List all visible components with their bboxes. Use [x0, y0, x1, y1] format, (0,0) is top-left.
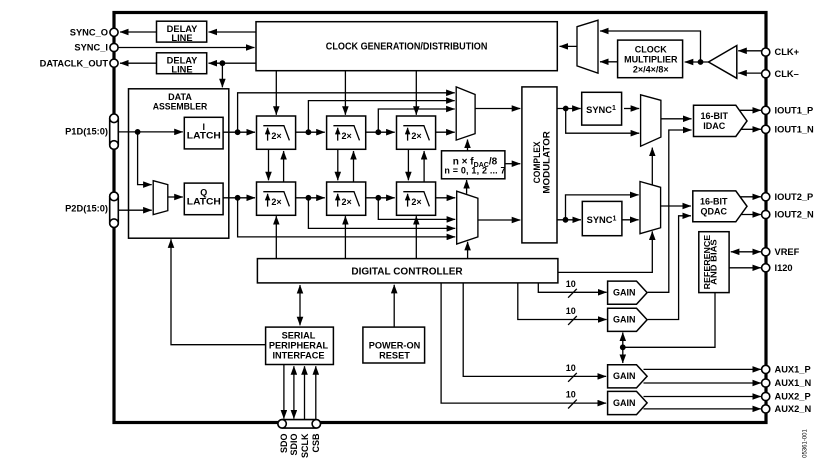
wire: I filter3 to I mux input 4 [436, 131, 455, 133]
block: SYNC1 (I path) [582, 92, 622, 125]
block: I interpolation filter 1 (2x) [257, 116, 296, 149]
mux: IDAC input select [641, 95, 661, 146]
block: SERIAL PERIPHERAL INTERFACE [266, 327, 334, 364]
wire: controller to SPI (bidirectional) [299, 285, 301, 325]
svg-text:I120: I120 [775, 263, 793, 273]
junction dot at Q LATCH output [235, 195, 241, 201]
bus slash gain 2 [568, 316, 577, 325]
pin SYNC_O [110, 28, 118, 36]
svg-text:CLK+: CLK+ [775, 47, 800, 57]
svg-text:10: 10 [566, 363, 576, 373]
svg-text:16-BIT: 16-BIT [701, 111, 729, 121]
svg-text:05361-001: 05361-001 [802, 428, 808, 457]
wire: reference to I120 [729, 267, 761, 269]
junction dot on bias link [620, 344, 626, 350]
wire: P1D input to I LATCH [118, 131, 183, 133]
pin IOUT1_P [762, 106, 770, 114]
pin AUX1_N [762, 379, 770, 387]
wire: aux gain1 to AUX1_P [644, 368, 761, 370]
svg-text:QDAC: QDAC [701, 206, 728, 216]
wire: aux gain2 to AUX2_P [644, 396, 761, 398]
svg-text:SDIO: SDIO [289, 434, 299, 456]
svg-text:IOUT2_N: IOUT2_N [775, 210, 815, 220]
svg-text:2×/4×/8×: 2×/4×/8× [633, 64, 669, 74]
wire: controller to gain 1 (10-bit bus) [538, 283, 606, 292]
svg-text:SCLK: SCLK [300, 433, 310, 458]
wire: clk buffer output to clock multiplier [685, 61, 709, 63]
wire: I bypass 3 to I mux input 3 [378, 109, 454, 132]
svg-text:SYNC_I: SYNC_I [74, 43, 108, 53]
wire: SPI to data assembler [171, 239, 266, 344]
wire: clk buffer branch to clock mux [600, 31, 701, 62]
block: AUX GAIN 1 [608, 365, 648, 388]
wire: power-on reset to controller [393, 285, 395, 327]
wire: clock to I-filter 2 [344, 71, 346, 115]
svg-text:VREF: VREF [775, 247, 800, 257]
wire: I bypass 2 to I mux input 2 [308, 101, 454, 133]
svg-text:GAIN: GAIN [613, 288, 636, 298]
pin DATACLK_OUT [110, 59, 118, 67]
mux: Q path select [457, 191, 478, 244]
wire: I/Q exchange up column 2 [353, 151, 355, 182]
chip border [114, 13, 766, 423]
wire: controller to aux gain 1 (10-bit bus) [463, 283, 606, 377]
svg-text:LATCH: LATCH [187, 131, 221, 141]
block: I LATCH [184, 117, 223, 149]
block: Q interpolation filter 3 (2x) [397, 182, 436, 215]
svg-text:POWER-ON: POWER-ON [369, 340, 421, 350]
wire: clock gen to DELAY LINE 2 [209, 62, 257, 64]
wire: modulator Q out to SYNC1 [557, 219, 581, 221]
wire: controller clock to Q filter 1 [275, 216, 277, 259]
junction dot after Q filter2 [375, 195, 381, 201]
wire: SYNC_I to clock gen [118, 47, 254, 49]
svg-text:AUX1_P: AUX1_P [775, 365, 811, 375]
wire: I/Q exchange up column 1 [283, 151, 285, 182]
svg-text:DIGITAL CONTROLLER: DIGITAL CONTROLLER [351, 266, 463, 277]
wire: clock to I-filter 1 [275, 71, 277, 115]
wire: reference to VREF (bidirectional) [731, 251, 761, 253]
pin AUX2_P [762, 392, 770, 400]
svg-text:RESET: RESET [379, 350, 410, 360]
wire: controller to QDAC mux select [558, 231, 652, 272]
wire: Q filter1 to filter2 [296, 197, 325, 199]
wire: Q mux up to NCO box [466, 180, 468, 194]
block: Q interpolation filter 2 (2x) [327, 182, 366, 215]
block: GAIN 2 [608, 308, 648, 331]
svg-text:LINE: LINE [171, 64, 192, 74]
svg-text:10: 10 [566, 306, 576, 316]
wire: clock gen to DELAY LINE 1 [209, 31, 257, 33]
pin SDO/SDIO/SCLK/CSB bus pill [278, 420, 321, 429]
svg-text:GAIN: GAIN [613, 398, 636, 408]
wire: gain1 feed up to IDAC [648, 130, 692, 292]
wire: bias link up to gain2 and down to aux gain1 [622, 333, 624, 364]
wire: IDAC to IOUT1_N [741, 128, 761, 130]
svg-text:GAIN: GAIN [613, 371, 636, 381]
pin P2D(15:0) bus pill [110, 192, 119, 227]
wire: I filter1 to filter2 [296, 131, 325, 133]
wire: gain2 feed up to QDAC [648, 216, 691, 320]
wire: dataclk branch down to data assembler [221, 63, 223, 87]
block: GAIN 1 [608, 281, 648, 304]
svg-text:IOUT1_N: IOUT1_N [775, 124, 815, 134]
block: REFERENCE AND BIAS [699, 232, 729, 293]
block: I interpolation filter 3 (2x) [397, 116, 436, 149]
svg-text:10: 10 [566, 279, 576, 289]
svg-text:16-BIT: 16-BIT [700, 196, 728, 206]
wire: data mux to Q LATCH [168, 196, 183, 198]
pin CLK+ [762, 48, 770, 56]
svg-text:IOUT1_P: IOUT1_P [775, 105, 814, 115]
pin AUX2_N [762, 405, 770, 413]
svg-text:PERIPHERAL: PERIPHERAL [269, 340, 329, 350]
wire: Q filter3 to Q mux input 1 [436, 197, 455, 199]
svg-text:2×: 2× [411, 131, 421, 141]
svg-text:10: 10 [566, 390, 576, 400]
block: AUX GAIN 2 [608, 391, 648, 414]
wire: controller to aux gain 2 (10-bit bus) [441, 283, 606, 403]
wire: Q filter2 to filter3 [366, 197, 395, 199]
block: POWER-ON RESET [363, 327, 425, 363]
pin IOUT2_N [762, 210, 770, 218]
svg-text:CLOCK GENERATION/DISTRIBUTION: CLOCK GENERATION/DISTRIBUTION [326, 42, 488, 53]
svg-text:2×: 2× [271, 131, 281, 141]
bus slash aux gain 2 [568, 400, 577, 409]
svg-text:CLK–: CLK– [775, 69, 799, 79]
wire: SYNC1 Q to QDAC mux [622, 219, 639, 221]
svg-text:CSB: CSB [311, 433, 321, 453]
block: Q interpolation filter 1 (2x) [257, 182, 296, 215]
svg-text:AUX1_N: AUX1_N [775, 378, 812, 388]
svg-text:INTERFACE: INTERFACE [272, 350, 324, 360]
svg-text:IOUT2_P: IOUT2_P [775, 192, 814, 202]
wire: IDAC mux to 16-BIT IDAC [661, 118, 692, 120]
wire: SDIO pin bidirectional [293, 366, 295, 418]
wire: QDAC mux to IDAC mux select link [651, 148, 653, 185]
wire: DELAY LINE 1 to SYNC_O [120, 31, 156, 33]
wire: I/Q exchange down column 3 [407, 149, 409, 180]
junction dot at I LATCH output [235, 129, 241, 135]
junction dot after Q filter1 [306, 195, 312, 201]
bus slash aux gain 1 [568, 373, 577, 382]
wire: I/Q exchange down column 1 [268, 149, 270, 180]
wire: QDAC mux to 16-BIT QDAC [661, 205, 691, 207]
svg-text:ASSEMBLER: ASSEMBLER [153, 102, 208, 112]
wire: Q bypass from latch to Q mux input 4 [238, 198, 456, 237]
svg-text:2×: 2× [342, 197, 352, 207]
wire: CSB pin to SPI [315, 366, 317, 420]
wire: NCO box up to I mux [467, 140, 469, 151]
block: 16-BIT QDAC [693, 191, 747, 222]
svg-text:IDAC: IDAC [703, 121, 725, 131]
pin CLK- [762, 70, 770, 78]
wire: SCLK pin to SPI [304, 366, 306, 420]
wire: Q bypass 3 to Q mux input 2 [378, 198, 455, 220]
wire: aux gain2 to AUX2_N [644, 408, 761, 410]
wire: I/Q exchange up column 3 [423, 151, 425, 182]
wire: CLK- to buffer [738, 72, 761, 74]
block: DELAY LINE 2 [157, 53, 207, 75]
wire: Q bypass 2 to Q mux input 3 [308, 198, 455, 229]
mux: P1D/P2D data select [153, 181, 168, 215]
svg-text:P1D(15:0): P1D(15:0) [65, 127, 108, 137]
wire: QDAC to IOUT2_P [740, 196, 761, 198]
svg-text:SYNC_O: SYNC_O [70, 27, 108, 37]
svg-text:SDO: SDO [279, 434, 289, 454]
wire: controller clock to Q filter 3 [415, 216, 417, 259]
svg-text:GAIN: GAIN [613, 315, 636, 325]
clock input buffer triangle [709, 46, 737, 79]
wire: I bypass to IDAC mux [566, 109, 640, 134]
svg-text:2×: 2× [271, 197, 281, 207]
bus slash gain 1 [568, 289, 577, 298]
wire: reference bias to gain chain [623, 293, 715, 348]
svg-text:DATA: DATA [168, 92, 192, 102]
pin VREF [762, 248, 770, 256]
wire: I/Q exchange down column 2 [337, 149, 339, 180]
svg-text:2×: 2× [411, 197, 421, 207]
svg-text:MULTIPLIER: MULTIPLIER [624, 54, 678, 64]
svg-text:LATCH: LATCH [187, 197, 221, 207]
svg-text:2×: 2× [342, 131, 352, 141]
wire: P2D input to data mux [118, 209, 151, 211]
svg-text:LINE: LINE [171, 33, 192, 43]
junction dot at modulator Q output [563, 217, 569, 223]
mux: QDAC input select [640, 182, 661, 234]
wire: clock mux output to clock gen [560, 45, 578, 47]
junction dot on P1D wire [135, 129, 141, 135]
block: Q LATCH [184, 183, 223, 215]
svg-text:AUX2_N: AUX2_N [775, 404, 812, 414]
wire: modulator I out to SYNC1 [557, 108, 581, 110]
pin AUX1_P [762, 365, 770, 373]
wire: QDAC to IOUT2_N [741, 214, 761, 216]
wire: controller to gain 2 (10-bit bus) [518, 283, 607, 320]
wire: I bypass from latch to I mux input 1 [238, 93, 455, 132]
block: NCO frequency box n x fDAC/8 [442, 151, 506, 179]
svg-text:AND BIAS: AND BIAS [710, 239, 719, 285]
wire: DELAY LINE 2 to DATACLK_OUT [120, 62, 156, 64]
block: DATA ASSEMBLER (container) [129, 89, 229, 238]
block: 16-BIT IDAC [694, 105, 748, 136]
block: SYNC1 (Q path) [582, 201, 622, 235]
svg-text:SYNC1: SYNC1 [587, 215, 617, 225]
wire: controller clock to Q filter 2 [344, 216, 346, 259]
wire: IDAC to IOUT1_P [740, 109, 761, 111]
block: COMPLEX MODULATOR [522, 87, 557, 243]
junction dot at clk buffer output [698, 59, 704, 65]
junction dot on dataclk wire [220, 60, 226, 66]
junction dot at modulator I output [563, 106, 569, 112]
mux: clock source select [577, 20, 598, 73]
wire: aux gain1 to AUX1_N [644, 382, 761, 384]
svg-text:SYNC1: SYNC1 [586, 105, 616, 115]
block: CLOCK MULTIPLIER 2x/4x/8x [618, 40, 683, 78]
svg-text:DATACLK_OUT: DATACLK_OUT [40, 58, 109, 68]
wire: controller to Q mux select [467, 242, 469, 259]
block: CLOCK GENERATION/DISTRIBUTION [256, 22, 557, 71]
wire: I LATCH output to filter 1 [223, 131, 255, 133]
mux: I path select [456, 87, 475, 140]
wire: SPI to SDO pin [283, 365, 285, 419]
wire: Q bypass to QDAC mux [566, 195, 639, 220]
wire: I filter2 to filter3 [366, 131, 395, 133]
svg-text:P2D(15:0): P2D(15:0) [65, 204, 108, 214]
pin IOUT1_N [762, 125, 770, 133]
pin IOUT2_P [762, 193, 770, 201]
wire: P1D branch to data mux [138, 132, 152, 185]
svg-text:CLOCK: CLOCK [635, 44, 667, 54]
pin I120 [762, 264, 770, 272]
junction dot after I filter2 [375, 129, 381, 135]
svg-text:MODULATOR: MODULATOR [541, 131, 551, 194]
pin P1D(15:0) bus pill [110, 114, 119, 149]
wire: Q mux to complex modulator [478, 219, 520, 221]
block: DELAY LINE 1 [157, 21, 207, 43]
svg-text:AUX2_P: AUX2_P [775, 392, 811, 402]
svg-text:n = 0, 1, 2 ... 7: n = 0, 1, 2 ... 7 [444, 166, 505, 176]
block: DIGITAL CONTROLLER [257, 259, 558, 283]
wire: clock to I-filter 3 [415, 71, 417, 115]
wire: NCO box to complex modulator [505, 163, 520, 165]
block: I interpolation filter 2 (2x) [327, 116, 366, 149]
wire: SYNC1 I to IDAC mux [624, 108, 639, 110]
wire: CLK+ to buffer [738, 50, 761, 52]
wire: clock multiplier to clock mux [600, 61, 618, 63]
svg-text:SERIAL: SERIAL [282, 330, 316, 340]
pin SYNC_I [110, 43, 118, 51]
wire: I mux to complex modulator [475, 108, 520, 110]
junction dot after I filter1 [306, 129, 312, 135]
wire: Q LATCH output to filter 1 [223, 197, 255, 199]
